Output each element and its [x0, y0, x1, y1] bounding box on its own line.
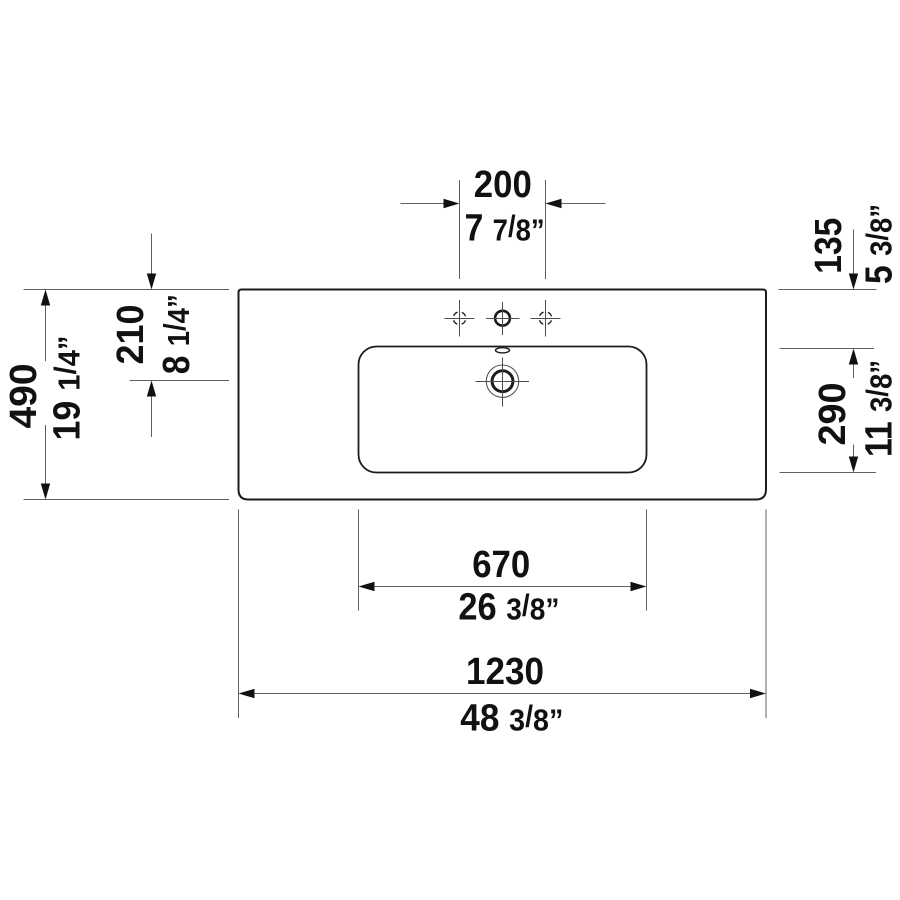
- svg-text:8 1/4”: 8 1/4”: [156, 294, 198, 374]
- svg-text:19 1/4”: 19 1/4”: [47, 336, 89, 441]
- svg-text:490: 490: [3, 364, 45, 429]
- svg-text:26 3/8”: 26 3/8”: [458, 587, 559, 629]
- svg-text:290: 290: [812, 383, 854, 446]
- svg-text:1230: 1230: [466, 651, 544, 693]
- svg-text:670: 670: [472, 544, 530, 586]
- svg-text:11 3/8”: 11 3/8”: [859, 360, 900, 457]
- svg-text:135: 135: [808, 218, 850, 274]
- svg-text:48 3/8”: 48 3/8”: [460, 698, 563, 740]
- svg-text:5 3/8”: 5 3/8”: [859, 204, 900, 284]
- svg-text:7 7/8”: 7 7/8”: [465, 208, 545, 250]
- svg-text:210: 210: [110, 305, 152, 365]
- svg-text:200: 200: [474, 164, 532, 206]
